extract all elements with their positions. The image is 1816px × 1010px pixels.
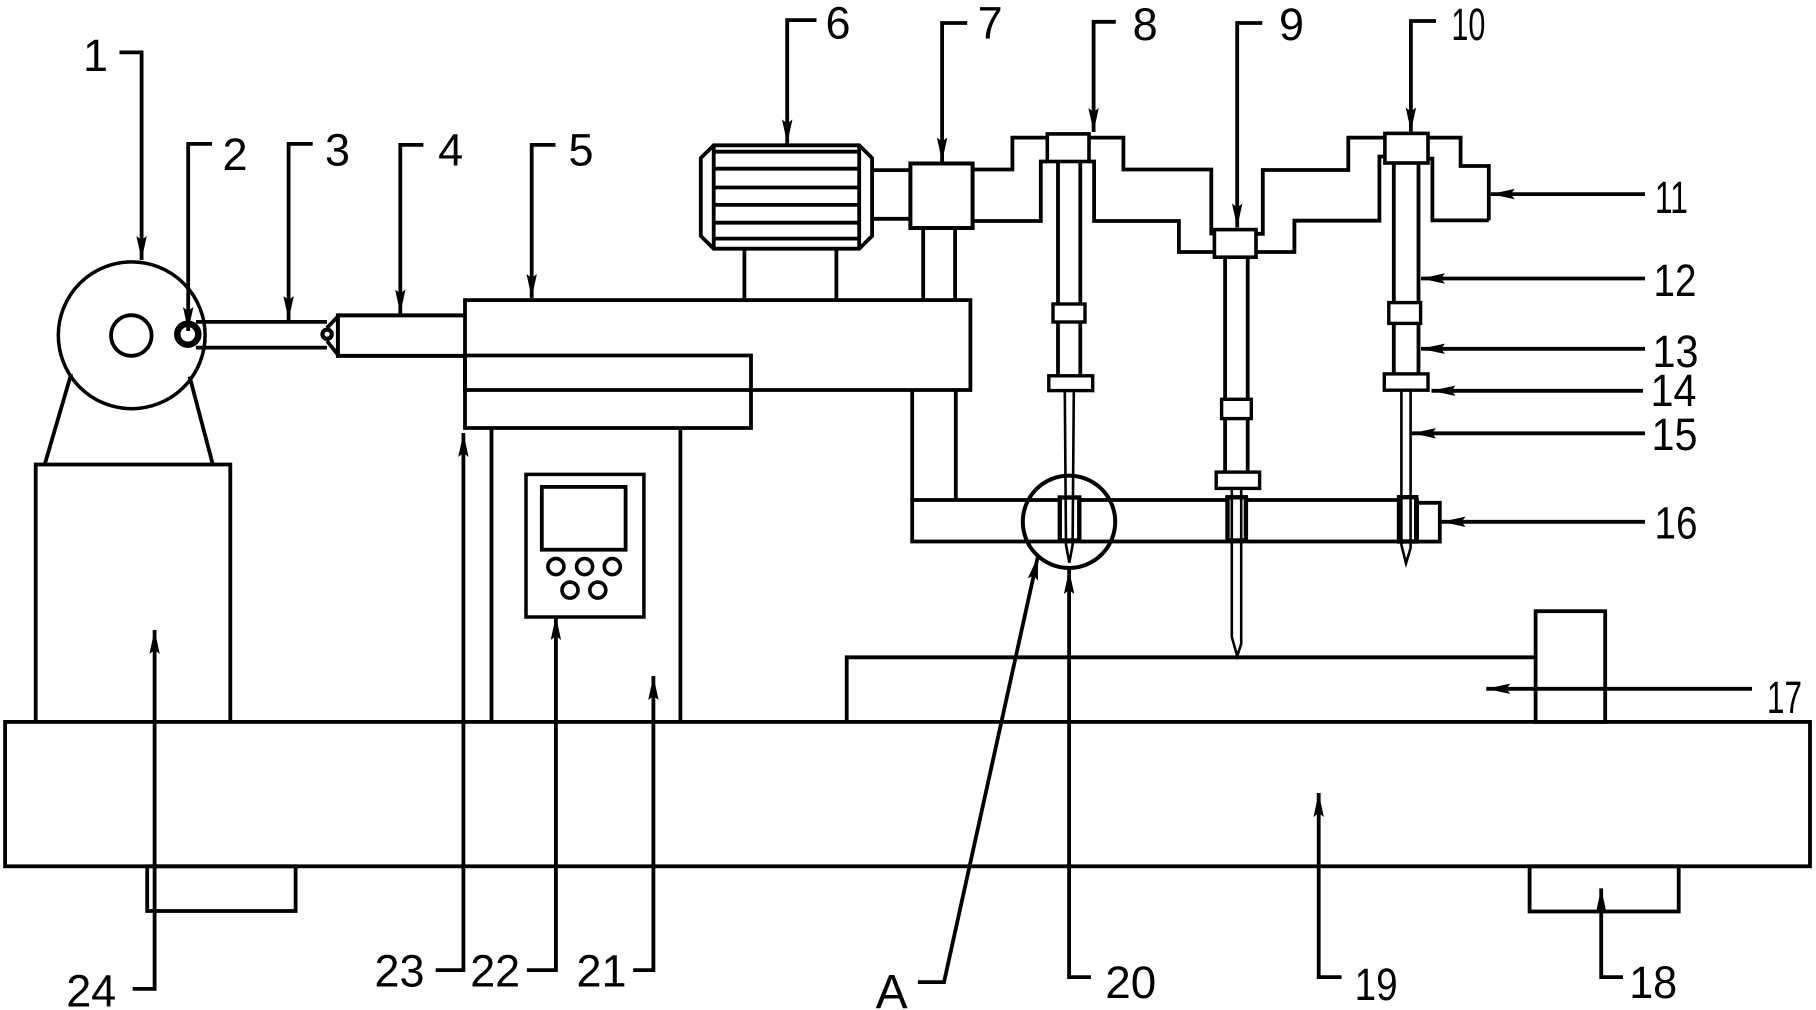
leader 2 — [188, 144, 212, 331]
stand right slant — [190, 377, 213, 465]
pipe end cap — [1417, 503, 1440, 542]
svg-text:A: A — [876, 966, 908, 1010]
needle 10 — [1401, 391, 1410, 564]
panel screen 22 — [542, 487, 626, 550]
rod 9 flange — [1216, 472, 1259, 488]
wheel hub — [111, 315, 152, 356]
leader 7 — [942, 23, 967, 162]
svg-text:16: 16 — [1655, 498, 1698, 549]
panel buttons — [548, 559, 620, 599]
label 20 — [1105, 957, 1156, 1008]
motor mount — [744, 249, 836, 300]
sleeve 10 — [1399, 497, 1416, 541]
label 17 — [1767, 672, 1802, 723]
leader 3 — [289, 144, 313, 320]
label 24 — [66, 966, 116, 1010]
housing lower block — [465, 356, 751, 429]
label 1 — [83, 30, 108, 81]
push bar 4 — [327, 315, 465, 356]
svg-text:4: 4 — [438, 125, 463, 176]
leader 9 — [1237, 23, 1262, 228]
label 4 — [438, 125, 463, 176]
leader 10 — [1411, 21, 1436, 132]
rod 9 upper — [1225, 257, 1248, 399]
detail circle A — [1023, 476, 1115, 568]
motor 6 body — [701, 145, 872, 248]
rod 10 flange — [1384, 374, 1428, 390]
rod 9 lower — [1225, 419, 1248, 473]
leader 23 — [436, 433, 464, 970]
duct housing to pipe — [912, 390, 956, 500]
svg-text:12: 12 — [1654, 255, 1697, 306]
motor shaft — [872, 170, 910, 219]
leader 15 — [1412, 431, 1645, 435]
sleeve 9 — [1228, 497, 1246, 540]
wheel 1 — [58, 262, 205, 409]
leader 4 — [400, 145, 423, 314]
label 12 — [1654, 255, 1697, 306]
left foot 24 — [147, 866, 295, 911]
svg-text:8: 8 — [1133, 0, 1158, 50]
connecting arm 3 — [196, 322, 327, 348]
motor fins — [714, 152, 860, 239]
leader 8 — [1094, 22, 1116, 132]
svg-text:2: 2 — [222, 129, 247, 180]
leader 22 — [527, 616, 556, 970]
label 14 — [1651, 365, 1697, 416]
column 23 — [492, 428, 681, 722]
leader 21 — [633, 676, 653, 970]
right foot 18 — [1530, 866, 1679, 911]
label 13 — [1653, 326, 1699, 377]
label 8 — [1133, 0, 1158, 50]
svg-text:21: 21 — [577, 946, 627, 997]
label 7 — [978, 0, 1003, 49]
rod 10 upper — [1394, 163, 1419, 303]
duct gearbox to housing — [923, 228, 955, 300]
leader 20 — [1069, 570, 1091, 977]
sleeve 8 — [1060, 498, 1080, 541]
housing 5 — [465, 300, 970, 390]
gearbox 7 — [910, 164, 972, 229]
leader 13 — [1421, 347, 1645, 351]
svg-text:24: 24 — [66, 966, 116, 1010]
leader 11 — [1491, 192, 1645, 196]
rod 9 coupling — [1222, 399, 1252, 418]
label 18 — [1629, 957, 1677, 1008]
control panel 21 — [526, 474, 644, 617]
label 15 — [1652, 409, 1698, 460]
svg-text:18: 18 — [1629, 957, 1677, 1008]
svg-text:9: 9 — [1279, 0, 1304, 50]
pedestal block — [36, 465, 231, 722]
label 9 — [1279, 0, 1304, 50]
leader 19 — [1319, 793, 1342, 977]
needle 8 — [1065, 391, 1074, 563]
manifold upper profile — [973, 138, 1489, 234]
svg-text:7: 7 — [978, 0, 1003, 49]
svg-text:19: 19 — [1355, 959, 1398, 1010]
svg-text:22: 22 — [470, 946, 520, 997]
svg-text:11: 11 — [1655, 172, 1688, 223]
collar 8 — [1047, 134, 1089, 162]
label 2 — [222, 129, 247, 180]
svg-text:10: 10 — [1451, 0, 1485, 50]
label A — [876, 966, 908, 1010]
svg-text:5: 5 — [568, 125, 593, 176]
leader 14 — [1432, 389, 1644, 393]
leader A — [918, 556, 1038, 982]
label 5 — [568, 125, 593, 176]
label 23 — [375, 946, 425, 997]
label 22 — [470, 946, 520, 997]
rod 10 lower — [1394, 323, 1419, 374]
rod 8 lower — [1058, 322, 1080, 376]
collar 10 — [1385, 133, 1428, 163]
svg-text:6: 6 — [825, 0, 850, 49]
collar 9 — [1214, 230, 1256, 258]
label 16 — [1655, 498, 1698, 549]
svg-text:15: 15 — [1652, 409, 1698, 460]
leader 12 — [1421, 277, 1645, 281]
leader 6 — [787, 20, 816, 143]
base 19 — [5, 722, 1810, 866]
manifold lower profile — [973, 157, 1489, 253]
svg-text:20: 20 — [1105, 957, 1156, 1008]
rod 10 coupling — [1389, 303, 1421, 324]
svg-text:3: 3 — [325, 125, 350, 176]
arm pivot ring — [323, 330, 332, 339]
svg-text:23: 23 — [375, 946, 425, 997]
leader 24 — [133, 630, 155, 989]
label 19 — [1355, 959, 1398, 1010]
rod 8 coupling — [1053, 304, 1085, 322]
leader 17 — [1486, 687, 1752, 691]
rod 8 upper — [1058, 162, 1080, 305]
label 6 — [825, 0, 850, 49]
label 21 — [577, 946, 627, 997]
leader 16 — [1442, 520, 1645, 524]
needle 9 — [1232, 489, 1241, 656]
table 17 — [847, 657, 1536, 722]
leader 1 — [120, 52, 142, 260]
svg-text:1: 1 — [83, 30, 108, 81]
svg-text:17: 17 — [1767, 672, 1802, 723]
label 10 — [1451, 0, 1485, 50]
crank pin ring 2 — [177, 324, 198, 345]
stand left slant — [45, 374, 71, 465]
label 3 — [325, 125, 350, 176]
label 11 — [1655, 172, 1688, 223]
pipe 16 — [912, 500, 1417, 542]
leader 5 — [532, 145, 556, 298]
leader 18 — [1601, 888, 1623, 977]
rod 8 flange — [1049, 376, 1093, 391]
pillar on table — [1536, 611, 1606, 722]
